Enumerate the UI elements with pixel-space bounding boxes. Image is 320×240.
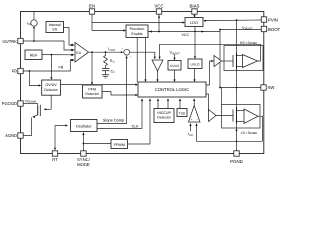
svg-text:SW: SW [268,85,276,90]
svg-text:FB: FB [12,69,18,74]
svg-text:FB: FB [59,65,64,69]
svg-text:VCC: VCC [182,33,190,37]
svg-text:SS: SS [28,23,32,26]
svg-text:PVIN: PVIN [268,17,278,22]
svg-text:C: C [113,61,115,64]
svg-text:Slope Comp: Slope Comp [103,117,124,122]
svg-text:+: + [122,46,124,50]
svg-text:Internal: Internal [49,23,61,27]
svg-text:AGND: AGND [5,133,17,138]
svg-text:−: − [129,55,131,59]
svg-text:EN: EN [89,3,95,8]
svg-text:FPWM: FPWM [114,143,125,147]
svg-text:Precision: Precision [130,27,145,31]
svg-text:CONTROL LOGIC: CONTROL LOGIC [155,87,190,92]
svg-text:LS I Sense: LS I Sense [241,131,258,135]
svg-text:BIAS: BIAS [189,3,199,8]
svg-text:RT: RT [52,157,58,162]
svg-text:CMP: CMP [110,49,116,52]
svg-text:Detector: Detector [157,116,171,120]
svg-text:Detector: Detector [44,88,58,92]
svg-text:PGND: PGND [230,159,243,164]
svg-text:Enable: Enable [131,32,142,36]
svg-text:BOOT: BOOT [245,28,253,31]
svg-text:OV/UV: OV/UV [46,83,58,87]
svg-text:HS I Sense: HS I Sense [240,41,257,45]
svg-text:PGood: PGood [25,99,35,103]
svg-text:SS/TRK: SS/TRK [2,39,17,44]
svg-text:OC: OC [189,134,193,137]
svg-text:UVLO: UVLO [191,63,200,67]
svg-text:VCC: VCC [154,3,163,8]
svg-text:BOOT: BOOT [172,52,180,55]
svg-text:C: C [113,71,115,74]
svg-text:CLK: CLK [132,125,139,129]
svg-text:PFM: PFM [88,88,96,92]
svg-text:UVLO: UVLO [170,64,179,68]
svg-text:Oscillator: Oscillator [76,124,93,128]
svg-text:EA: EA [76,51,81,55]
svg-text:SS: SS [52,28,57,32]
svg-text:−: − [196,118,198,122]
svg-text:Detector: Detector [85,92,99,96]
svg-text:+: + [191,118,193,122]
svg-text:MODE: MODE [77,162,90,167]
svg-text:REF: REF [30,53,38,57]
svg-text:PGOOD: PGOOD [2,101,17,106]
svg-text:TSD: TSD [179,111,186,115]
svg-text:LDO: LDO [190,21,198,25]
svg-text:HICCUP: HICCUP [157,111,171,115]
svg-text:BOOT: BOOT [268,27,280,32]
